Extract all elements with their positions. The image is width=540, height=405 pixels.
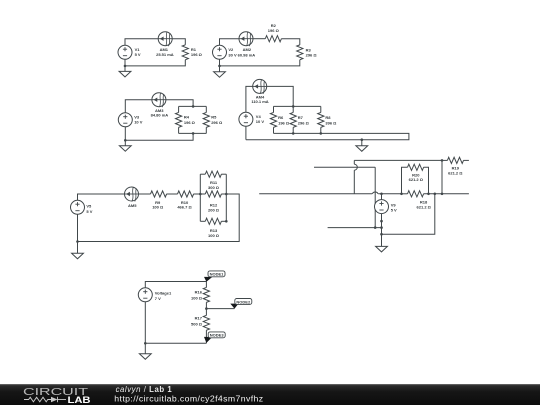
wire parallel block top bar bbox=[179, 105, 207, 107]
wire AM4 to parallel block bbox=[267, 86, 294, 106]
node flag NODE3 bbox=[204, 337, 212, 343]
voltage source Voltage1 bbox=[138, 288, 152, 302]
node Voltage1-ground junction bbox=[144, 342, 147, 345]
wire R18 left lead bbox=[402, 193, 408, 195]
resistor R13 bbox=[205, 218, 221, 224]
resistor R12 bbox=[205, 191, 221, 197]
node R16-R17 junction bbox=[205, 307, 208, 310]
svg-text:AM2: AM2 bbox=[243, 47, 252, 52]
node V2-ground junction bbox=[218, 65, 221, 68]
wire R17 bottom lead bbox=[205, 330, 207, 343]
svg-text:R16: R16 bbox=[195, 289, 203, 294]
svg-text:196 Ω: 196 Ω bbox=[278, 120, 290, 125]
node block top entry bbox=[192, 105, 195, 108]
wire V4 top to AM4 bbox=[246, 86, 253, 112]
svg-text:NODE2: NODE2 bbox=[236, 299, 251, 304]
svg-text:Voltage1: Voltage1 bbox=[155, 291, 172, 296]
wire R2 to R3 top bbox=[281, 39, 300, 45]
wire bottom rail circuit7 bbox=[145, 342, 206, 344]
svg-text:300 Ω: 300 Ω bbox=[208, 185, 220, 190]
resistor R11 bbox=[205, 171, 221, 177]
voltage source V2 bbox=[213, 45, 227, 59]
svg-text:100 Ω: 100 Ω bbox=[191, 295, 203, 300]
resistor R1 bbox=[182, 45, 188, 60]
node y234 junction bbox=[380, 233, 383, 236]
wire R7 bottom lead bbox=[292, 127, 294, 133]
resistor R20 right vertical bbox=[424, 167, 429, 194]
resistor R9 bbox=[151, 191, 167, 197]
node V1-ground junction bbox=[124, 65, 127, 68]
ground for V9 bbox=[376, 246, 388, 252]
svg-text:25.51 mA: 25.51 mA bbox=[156, 52, 174, 57]
svg-text:5 V: 5 V bbox=[391, 208, 397, 213]
resistor R20 left vertical bbox=[402, 167, 408, 194]
svg-text:LAB: LAB bbox=[68, 394, 91, 405]
wire R12 leads bbox=[200, 193, 205, 195]
wire R16 top lead bbox=[205, 282, 207, 288]
svg-text:30 V: 30 V bbox=[228, 53, 237, 58]
node block3 right junction bbox=[225, 193, 228, 196]
ammeter AM2 bbox=[239, 32, 253, 46]
wire V5 top to AM5 bbox=[78, 194, 125, 200]
resistor R18 bbox=[408, 191, 424, 197]
wire R7 top lead bbox=[292, 106, 294, 112]
wire node D horizontal y227 bbox=[328, 227, 382, 229]
svg-text:84.80 mA: 84.80 mA bbox=[151, 112, 169, 117]
wire V5 bottom bbox=[77, 214, 79, 241]
svg-text:621.2 Ω: 621.2 Ω bbox=[448, 171, 463, 176]
node y227 junction bbox=[380, 226, 383, 229]
wire Voltage1 bottom bbox=[144, 302, 146, 344]
svg-text:396 Ω: 396 Ω bbox=[325, 120, 337, 125]
node V5-ground junction bbox=[76, 240, 79, 243]
resistor R7 bbox=[290, 112, 296, 127]
svg-text:NODE3: NODE3 bbox=[210, 333, 225, 338]
wire V1 top to AM1 bbox=[125, 39, 158, 46]
wire R13 leads bbox=[200, 220, 205, 222]
wire R8 top lead bbox=[320, 106, 322, 112]
wire V1 bottom bbox=[124, 59, 126, 66]
wire R5 bottom lead bbox=[205, 127, 207, 133]
logo resistor-diode squiggle bbox=[24, 397, 51, 402]
node block2 top entry bbox=[292, 105, 295, 108]
node V9 wire segment joint bbox=[380, 220, 383, 223]
svg-text:V3: V3 bbox=[134, 114, 140, 119]
svg-text:60.98 mA: 60.98 mA bbox=[238, 53, 256, 58]
node V9 top junction bbox=[380, 193, 383, 196]
ground for V3 bbox=[124, 140, 126, 145]
svg-text:296 Ω: 296 Ω bbox=[306, 53, 318, 58]
wire R18 right to main line end bbox=[424, 193, 469, 195]
wire block3 to bottom rail of circuit5 bbox=[78, 194, 240, 242]
svg-text:100 Ω: 100 Ω bbox=[152, 205, 164, 210]
wire V4 bottom bbox=[245, 126, 247, 139]
ammeter AM1 bbox=[158, 32, 172, 46]
wire R10 to block3 bbox=[194, 193, 201, 195]
svg-text:621.2 Ω: 621.2 Ω bbox=[417, 204, 432, 209]
node R19 left junction bbox=[441, 159, 444, 162]
svg-text:R4: R4 bbox=[184, 115, 190, 120]
node block bottom exit bbox=[192, 132, 195, 135]
resistor R10 bbox=[178, 191, 194, 197]
wire main line y194 left part bbox=[259, 193, 372, 195]
resistor R8 bbox=[318, 112, 324, 127]
node x442 on main line bbox=[441, 193, 444, 196]
wire block to bottom rail bbox=[125, 133, 193, 140]
wire R17 top lead bbox=[205, 309, 207, 316]
svg-text:296 Ω: 296 Ω bbox=[298, 120, 310, 125]
node ground tap circuit4 bbox=[361, 138, 364, 141]
ammeter AM3 bbox=[152, 93, 166, 107]
node R18 right junction bbox=[427, 193, 430, 196]
wire R11 leads bbox=[200, 173, 205, 175]
wire node E horizontal y234 and up to main bbox=[382, 194, 435, 234]
ground for V2 bbox=[219, 66, 221, 72]
resistor R16 bbox=[203, 287, 209, 302]
svg-text:100 Ω: 100 Ω bbox=[208, 233, 220, 238]
svg-text:10 V: 10 V bbox=[256, 119, 265, 124]
svg-text:R2: R2 bbox=[271, 23, 277, 28]
svg-text:10 V: 10 V bbox=[134, 120, 143, 125]
svg-text:621.2 Ω: 621.2 Ω bbox=[409, 177, 424, 182]
ground for V5 bbox=[77, 242, 79, 254]
node V3-ground junction bbox=[124, 139, 127, 142]
svg-text:5 V: 5 V bbox=[135, 52, 141, 57]
wire R3 bottom rail to V2 bbox=[220, 60, 300, 66]
voltage source V3 bbox=[118, 113, 132, 127]
hop over x375 vertical bbox=[372, 192, 378, 194]
svg-text:296 Ω: 296 Ω bbox=[211, 120, 223, 125]
wire V2 bottom bbox=[219, 59, 221, 66]
ground for V1 bbox=[124, 66, 126, 72]
wire AM5 to R9 bbox=[139, 193, 151, 195]
voltage source V9 bbox=[375, 200, 389, 214]
svg-text:http://circuitlab.com/cy2f4sm7: http://circuitlab.com/cy2f4sm7nvfhz bbox=[114, 393, 263, 403]
wire vertical x375 down to lower node bbox=[374, 167, 376, 227]
svg-text:110.1 mA: 110.1 mA bbox=[251, 99, 268, 104]
resistor R3 bbox=[297, 45, 303, 60]
wire block3 right bar bbox=[225, 174, 227, 221]
node block3 left junction bbox=[199, 193, 202, 196]
svg-text:R5: R5 bbox=[211, 115, 217, 120]
wire R6 bottom lead bbox=[273, 127, 275, 133]
svg-text:196 Ω: 196 Ω bbox=[191, 52, 203, 57]
node flag NODE1 bbox=[204, 277, 212, 282]
wire main line y194 to R18 bbox=[378, 193, 401, 195]
wire vertical x354 with hop over y167 wire bbox=[353, 160, 355, 164]
svg-text:500 Ω: 500 Ω bbox=[191, 322, 203, 327]
wire top rail y160 bbox=[354, 159, 442, 161]
svg-text:AM5: AM5 bbox=[128, 203, 137, 208]
wire parallel block2 bottom bar to right return bbox=[246, 133, 409, 139]
wire V3 bottom bbox=[124, 127, 126, 141]
resistor R6 bbox=[270, 112, 276, 127]
wire V3 top to AM3 bbox=[125, 100, 152, 113]
svg-text:NODE1: NODE1 bbox=[210, 272, 225, 277]
ammeter AM5 bbox=[125, 187, 139, 201]
svg-text:196 Ω: 196 Ω bbox=[268, 28, 280, 33]
wire Voltage1 top to R16 bbox=[145, 282, 206, 288]
wire R9 to R10 bbox=[167, 193, 178, 195]
wire R8 bottom lead bbox=[320, 127, 322, 133]
wire V2 top to AM2 bbox=[220, 39, 240, 46]
wire AM1 to R1 top bbox=[172, 39, 185, 45]
wire parallel block bottom bar bbox=[179, 132, 207, 134]
wire V9 bottom to ground bbox=[381, 214, 383, 247]
voltage source V5 bbox=[71, 200, 85, 214]
node flag NODE2 bbox=[230, 304, 238, 309]
wire R16 bottom lead bbox=[205, 302, 207, 308]
wire AM3 to parallel block bbox=[166, 100, 193, 107]
wire parallel block2 top bar bbox=[274, 105, 321, 107]
resistor R2 bbox=[265, 36, 281, 42]
node x434.8 junction bbox=[434, 193, 437, 196]
svg-text:196 Ω: 196 Ω bbox=[184, 120, 196, 125]
resistor R19 bbox=[447, 157, 463, 163]
wire R4 top lead bbox=[178, 106, 180, 112]
voltage source V4 bbox=[239, 112, 253, 126]
svg-text:466.7 Ω: 466.7 Ω bbox=[177, 205, 192, 210]
footer bar bbox=[0, 384, 540, 405]
svg-text:R17: R17 bbox=[195, 316, 203, 321]
voltage source V1 bbox=[118, 45, 132, 59]
wire R5 top lead bbox=[205, 106, 207, 112]
ground for Voltage1 bbox=[144, 343, 146, 354]
svg-text:7 V: 7 V bbox=[155, 296, 161, 301]
wire V9 top bbox=[381, 194, 383, 200]
svg-text:5 V: 5 V bbox=[86, 209, 92, 214]
wire AM2 to R2 bbox=[253, 38, 265, 40]
wire R1 bottom rail to V1 bbox=[125, 60, 185, 66]
wire block3 left bar bbox=[199, 174, 201, 221]
ammeter AM4 bbox=[253, 79, 267, 93]
wire R6 top lead bbox=[273, 106, 275, 112]
wire node A horizontal y167 bbox=[314, 166, 375, 168]
resistor R4 bbox=[176, 112, 182, 127]
node R7 bottom junction bbox=[292, 132, 295, 135]
wire R4 bottom lead bbox=[178, 127, 180, 133]
node main-R18 left junction bbox=[400, 193, 403, 196]
resistor R5 bbox=[203, 112, 209, 127]
wire R19 right lead bbox=[463, 159, 469, 161]
ground for circuit4 bbox=[361, 140, 363, 146]
wire R19 left lead bbox=[442, 159, 447, 161]
node x375 bottom junction bbox=[374, 226, 377, 229]
node block3 right bottom junction bbox=[225, 220, 228, 223]
svg-text:V2: V2 bbox=[228, 47, 234, 52]
resistor R17 bbox=[203, 315, 209, 330]
node R8 bottom junction bbox=[320, 132, 323, 135]
wire vertical x442 bbox=[441, 160, 443, 193]
resistor R20 bbox=[408, 164, 424, 170]
svg-text:200 Ω: 200 Ω bbox=[208, 207, 220, 212]
wire junction to NODE2 bbox=[206, 308, 234, 310]
